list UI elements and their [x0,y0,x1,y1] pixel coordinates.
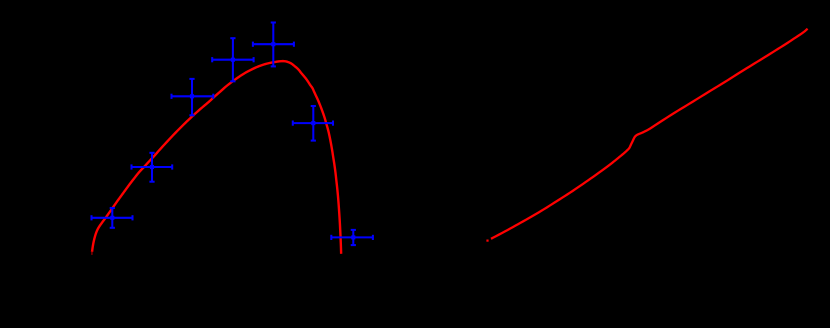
data point 5 with xy error bars [253,23,294,67]
data point 4 with xy error bars [212,38,253,81]
right plot: red curve [491,29,808,239]
data point 2 with xy error bars [132,153,173,182]
data point 1 with xy error bars [92,208,133,228]
data point 3 with xy error bars [172,79,214,115]
left plot: red fitted curve [92,61,341,254]
left curve: faint start tail [91,252,93,255]
data point 6 with xy error bars [293,106,333,141]
right plot: leading dot of curve [486,240,488,242]
data point 7 with xy error bars [331,230,373,245]
